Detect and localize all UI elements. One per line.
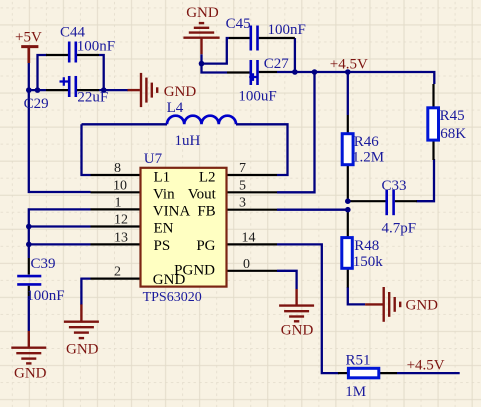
- svg-text:R45: R45: [440, 108, 465, 124]
- svg-text:10: 10: [113, 178, 127, 193]
- svg-text:7: 7: [239, 161, 246, 176]
- svg-text:PS: PS: [154, 238, 171, 254]
- svg-text:150k: 150k: [353, 254, 384, 270]
- svg-text:100uF: 100uF: [238, 89, 276, 105]
- svg-text:13: 13: [114, 230, 128, 245]
- svg-text:22uF: 22uF: [77, 90, 108, 106]
- svg-text:GND: GND: [281, 323, 314, 339]
- svg-text:+4.5V: +4.5V: [330, 57, 368, 73]
- svg-text:TPS63020: TPS63020: [143, 290, 202, 305]
- svg-text:100nF: 100nF: [77, 39, 115, 55]
- svg-text:GND: GND: [164, 84, 197, 100]
- svg-text:0: 0: [243, 257, 250, 272]
- svg-text:4.7pF: 4.7pF: [382, 221, 417, 237]
- svg-text:GND: GND: [186, 5, 219, 21]
- svg-text:1.2M: 1.2M: [352, 150, 384, 166]
- svg-text:1: 1: [115, 195, 122, 210]
- svg-text:R46: R46: [354, 134, 380, 150]
- svg-text:VINA: VINA: [153, 203, 191, 219]
- svg-text:100nF: 100nF: [26, 288, 64, 304]
- svg-text:Vin: Vin: [153, 186, 175, 202]
- svg-text:FB: FB: [197, 204, 215, 220]
- svg-text:R48: R48: [354, 238, 379, 254]
- svg-text:GND: GND: [406, 298, 439, 314]
- svg-text:1uH: 1uH: [175, 133, 201, 149]
- svg-text:100nF: 100nF: [268, 22, 306, 38]
- svg-text:12: 12: [114, 213, 128, 228]
- svg-text:EN: EN: [154, 221, 174, 237]
- svg-text:C39: C39: [31, 256, 56, 272]
- svg-text:1M: 1M: [345, 384, 366, 400]
- svg-text:GND: GND: [14, 366, 47, 382]
- svg-text:Vout: Vout: [188, 186, 217, 202]
- svg-text:C27: C27: [264, 56, 290, 72]
- svg-text:3: 3: [239, 196, 246, 211]
- svg-text:14: 14: [242, 230, 256, 245]
- svg-text:8: 8: [114, 161, 121, 176]
- svg-text:GND: GND: [66, 342, 99, 358]
- svg-text:68K: 68K: [440, 126, 466, 142]
- svg-text:L1: L1: [154, 169, 171, 185]
- svg-text:2: 2: [114, 265, 121, 280]
- svg-text:PG: PG: [196, 238, 215, 254]
- svg-text:PGND: PGND: [174, 263, 215, 279]
- svg-text:L4: L4: [167, 100, 184, 116]
- svg-text:U7: U7: [144, 151, 163, 167]
- svg-text:+4.5V: +4.5V: [407, 358, 445, 374]
- svg-text:5: 5: [239, 178, 246, 193]
- svg-text:C45: C45: [226, 16, 251, 32]
- svg-text:C29: C29: [24, 96, 49, 112]
- svg-text:R51: R51: [346, 353, 371, 369]
- svg-text:C33: C33: [382, 178, 407, 194]
- svg-text:L2: L2: [199, 169, 216, 185]
- svg-text:+5V: +5V: [15, 29, 42, 45]
